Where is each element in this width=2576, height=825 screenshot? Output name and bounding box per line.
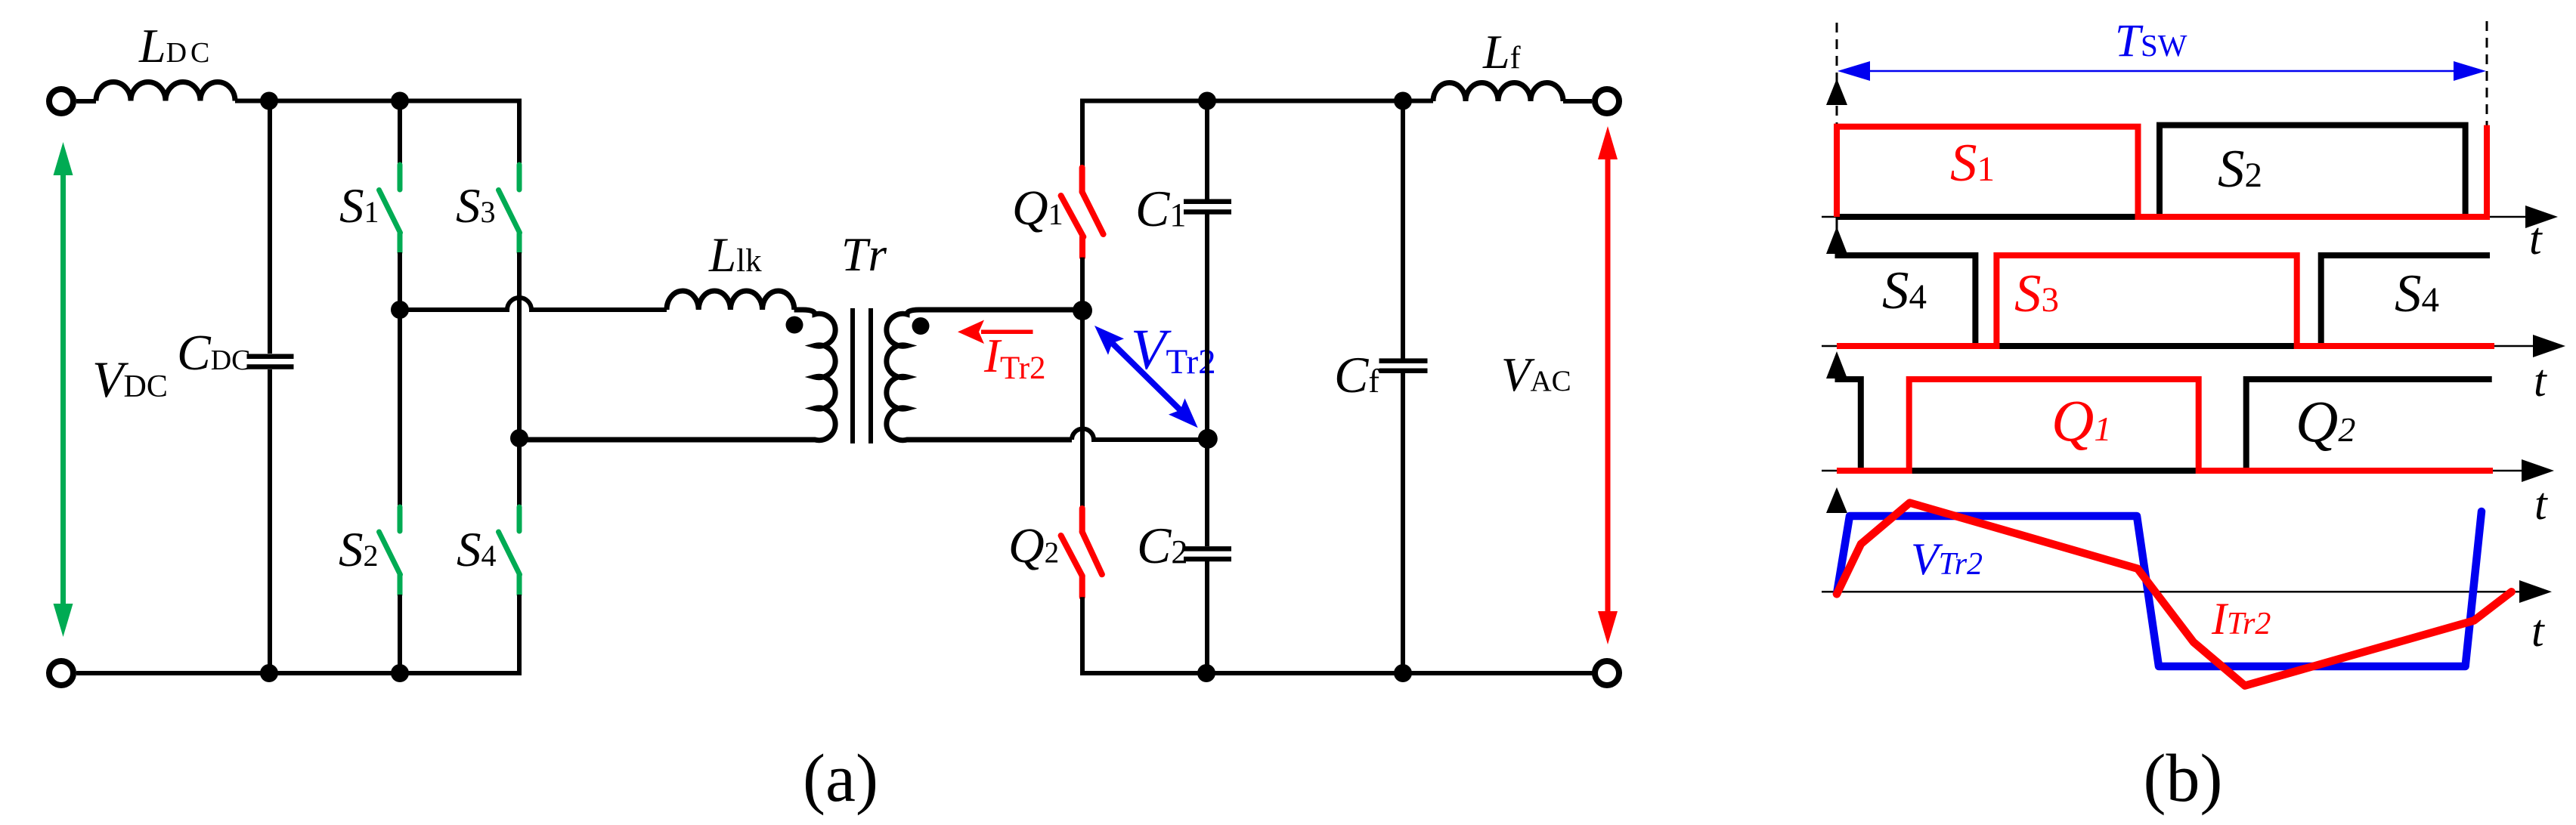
wire bottom rail right [1080, 671, 1595, 675]
axis1 x [1822, 216, 2526, 218]
wire S3-S4 mid [517, 252, 522, 505]
wire S3 leg top [517, 99, 522, 164]
switch S3 [499, 165, 520, 252]
arrow VTr2 [1094, 326, 1198, 428]
svg-text:t: t [2534, 356, 2547, 406]
arrow TSW [1838, 61, 2486, 81]
capacitor C1 [1184, 202, 1231, 212]
axis3 x [1822, 470, 2522, 472]
wire bottom rail left [76, 671, 522, 675]
svg-text:t: t [2531, 606, 2545, 656]
wire secondary bottom hop over Q leg [1072, 429, 1208, 440]
svg-text:(a): (a) [803, 741, 878, 816]
wire Cf leg lower [1401, 372, 1405, 673]
terminal top-left [49, 89, 73, 113]
node S3/S4 midpoint [510, 429, 528, 447]
waveform S4 black [1835, 255, 2491, 346]
wire C2 leg bottom [1205, 561, 1209, 673]
inductor Lf [1433, 82, 1563, 101]
waveform ITr2 red [1837, 503, 2512, 686]
node bottom S2 [391, 664, 409, 682]
wire S1-S2 mid [398, 252, 402, 505]
waveform VTr2 blue [1837, 511, 2482, 666]
wire S2 leg bottom [398, 595, 402, 673]
axis4 x [1822, 591, 2520, 593]
wire top-left lead [76, 99, 96, 104]
node S1/S2 midpoint [391, 301, 409, 319]
wire CDC leg upper [268, 101, 272, 354]
node top S1 tap [391, 92, 409, 110]
node Q midpoint [1073, 301, 1092, 320]
transformer Tr primary winding [519, 310, 835, 440]
terminal bottom-right [1595, 661, 1619, 685]
node C midpoint [1198, 429, 1218, 449]
svg-text:t: t [2534, 479, 2548, 529]
node top C1 tap [1198, 92, 1216, 110]
transformer Tr secondary winding [887, 310, 1082, 440]
switch Q1 [1061, 168, 1104, 258]
waveform Q2 black [1835, 379, 2492, 471]
terminal bottom-left [49, 661, 73, 685]
switch S2 [379, 507, 401, 595]
inductor Llk [667, 291, 794, 310]
transformer primary dot [786, 317, 803, 334]
capacitor Cf [1379, 361, 1428, 371]
waveform S1 red [1837, 125, 2487, 217]
wire C1 leg upper [1205, 101, 1209, 200]
axis2 y arrow [1826, 227, 1847, 254]
capacitor CDC [247, 357, 294, 367]
inductor LDC [96, 82, 235, 100]
node bottom C2 [1197, 664, 1215, 682]
switch S4 [499, 507, 520, 595]
arrow VAC [1598, 126, 1618, 644]
dashed marker left [1836, 23, 1838, 125]
wire Cf leg upper [1401, 101, 1405, 360]
wire mid rail with hop over S3 leg [400, 298, 667, 310]
wire S1 leg top [398, 101, 402, 164]
axis3 y arrow [1826, 351, 1847, 379]
arrow VDC [54, 142, 73, 637]
node bottom Cf [1394, 664, 1412, 682]
capacitor C2 [1184, 548, 1231, 559]
node top CDC tap [260, 92, 278, 110]
waveform S2 black [1837, 125, 2466, 217]
arrow ITr2 [958, 320, 1033, 345]
transformer core [853, 308, 871, 443]
switch S1 [379, 165, 401, 252]
svg-text:Tr: Tr [841, 228, 890, 281]
svg-text:t: t [2529, 214, 2543, 264]
wire to terminal top-right [1563, 99, 1592, 104]
waveform Q1 red [1837, 379, 2493, 471]
wire Q2 leg bottom [1080, 597, 1085, 671]
terminal top-right [1595, 89, 1619, 113]
wire S4 leg bottom [517, 595, 522, 673]
waveform S3 red [1837, 255, 2494, 346]
wire top rail right [1080, 99, 1433, 104]
switch Q2 [1061, 508, 1102, 597]
wire Q leg top [1080, 99, 1085, 168]
dashed marker right [2486, 21, 2488, 144]
wire C1-C2 mid [1205, 215, 1209, 547]
axis4 y arrow [1826, 487, 1847, 513]
svg-text:(b): (b) [2144, 741, 2223, 816]
axis1 y [1836, 125, 1838, 239]
transformer secondary dot [912, 317, 930, 335]
wire CDC leg lower [268, 369, 272, 673]
wire top rail left [235, 99, 519, 104]
node top Cf tap [1394, 92, 1412, 110]
axis2 x [1822, 345, 2534, 348]
node bottom CDC [260, 664, 278, 682]
wire Q1-Q2 mid [1080, 258, 1085, 508]
